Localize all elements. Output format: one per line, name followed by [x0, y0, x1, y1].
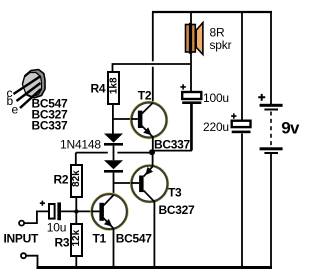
wire R2 bottom to T1 base node	[75, 197, 77, 212]
wire top positive rail	[152, 11, 272, 13]
node T1 base junction	[74, 209, 78, 213]
svg-text:INPUT: INPUT	[4, 232, 39, 246]
svg-text:12k: 12k	[71, 229, 82, 246]
svg-text:BC327: BC327	[159, 203, 195, 217]
svg-text:10u: 10u	[47, 220, 66, 234]
svg-text:82k: 82k	[71, 170, 82, 187]
wire R2 top stub	[75, 153, 77, 165]
TO-92 package face	[23, 73, 42, 97]
terminal input top	[19, 221, 24, 226]
transistor T2 collector line	[141, 103, 153, 115]
wire T3 base inside	[131, 182, 139, 184]
transistor T1 emitter line	[103, 217, 114, 229]
transistor T3 emitter line	[144, 167, 153, 177]
wire T1 base	[61, 210, 99, 212]
battery BT1 bottom cell	[260, 147, 283, 150]
transistor T3 emitter arrow	[145, 167, 153, 175]
wire 220u branch vertical	[241, 12, 243, 266]
speaker LS1 magnet	[186, 25, 196, 53]
transistor T2 base bar	[138, 111, 143, 128]
capacitor C3 220u	[232, 121, 251, 127]
wire T2 base inside	[131, 118, 138, 120]
capacitor C2 100u	[182, 92, 201, 99]
wire T3 base	[114, 182, 140, 184]
svg-text:BC547: BC547	[116, 232, 152, 246]
transistor T2 emitter line	[141, 125, 153, 137]
transistor T3 base bar	[139, 176, 144, 193]
wire T2 collector to rail (gap at crossing)	[152, 12, 154, 104]
wire R2 feedback to output node (gap at diode chain crossing)	[76, 152, 150, 154]
speaker LS1 coil stripe	[189, 23, 192, 54]
wire T1 base inside	[92, 210, 100, 212]
wire output node to 100u bottom	[152, 150, 192, 152]
TO-92 lead c	[14, 77, 41, 95]
transistor T3 circle	[131, 165, 169, 203]
wire T2 emitter to output node	[152, 137, 154, 152]
wire battery top vertical	[270, 12, 272, 104]
resistor R2	[71, 165, 82, 197]
capacitor C3 220u plus	[231, 113, 236, 118]
transistor T1 circle	[91, 193, 128, 230]
diode D1 1N4148	[104, 134, 123, 143]
wire T3 collector to ground	[153, 201, 155, 267]
wire speaker branch vertical	[190, 12, 192, 151]
TO-92 lead e	[20, 89, 41, 108]
TO-92 package body side	[23, 70, 46, 99]
wire diode bottom to T1 collector and T3 base junction	[113, 173, 115, 196]
transistor T2 circle	[131, 102, 168, 139]
TO-92 lead b	[17, 83, 41, 101]
wire 10u left to input terminal	[24, 211, 49, 223]
battery BT1 dashed middle	[270, 112, 272, 147]
svg-text:R2: R2	[54, 173, 69, 187]
wire R3 bottom to ground rail	[75, 256, 77, 267]
wire 100u bottom vertical	[191, 104, 193, 151]
transistor T2 emitter arrow	[143, 127, 151, 135]
svg-text:spkr: spkr	[210, 38, 232, 52]
svg-text:9v: 9v	[281, 119, 300, 138]
terminal input bottom	[21, 253, 26, 258]
wire ground rail	[37, 266, 273, 269]
wire T3 emitter to output node	[152, 153, 154, 167]
transistor T1 emitter arrow	[104, 219, 112, 227]
resistor R3	[71, 224, 82, 256]
svg-text:R4: R4	[91, 82, 106, 96]
wire R4 top to speaker bottom node	[113, 64, 192, 72]
battery BT1 plus	[258, 94, 265, 101]
svg-text:T3: T3	[168, 186, 182, 200]
wire input bottom to ground rail	[26, 256, 38, 266]
svg-text:1k8: 1k8	[109, 77, 120, 94]
capacitor C2 100u plus	[180, 84, 185, 89]
battery BT1 top cell	[260, 104, 283, 107]
diode D2 1N4148	[104, 160, 123, 169]
node output junction	[149, 149, 155, 155]
svg-text:1N4148: 1N4148	[60, 138, 101, 152]
svg-text:T2: T2	[138, 89, 152, 103]
svg-text:T1: T1	[93, 232, 107, 246]
transistor T1 base bar	[99, 203, 104, 221]
wire between diodes	[113, 146, 115, 161]
wire battery bottom to ground rail	[270, 154, 272, 267]
wire T2 base	[113, 118, 138, 120]
wire R4 bottom to T2 base node and diode top	[112, 104, 114, 134]
transistor T3 collector line	[144, 191, 155, 202]
svg-text:R3: R3	[55, 236, 70, 250]
svg-text:100u: 100u	[203, 91, 229, 105]
speaker LS1 cone	[196, 23, 203, 55]
wire R3 top stub	[75, 212, 77, 224]
svg-text:BC337: BC337	[32, 119, 68, 133]
svg-text:e: e	[12, 103, 19, 117]
svg-text:BC337: BC337	[154, 138, 190, 152]
transistor T1 collector line	[103, 195, 114, 207]
capacitor C1 10u	[49, 204, 55, 219]
resistor R4	[108, 72, 119, 104]
wire T1 emitter to ground	[113, 228, 115, 267]
svg-text:220u: 220u	[203, 120, 229, 134]
capacitor C1 10u plus	[40, 201, 45, 206]
